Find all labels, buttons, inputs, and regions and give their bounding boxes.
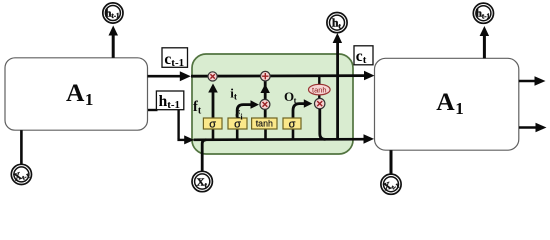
svg-text:tanh: tanh <box>312 85 327 94</box>
wire h(t-1) output arrow up from left block <box>112 30 115 58</box>
block A1 left (rounded rect) <box>5 58 148 130</box>
wire O(t) curve from sigma3 into right multiply <box>293 104 305 119</box>
gate box tanh <box>252 118 277 129</box>
wire x(t+1) riser into right block <box>390 150 393 174</box>
op multiply (output gate) <box>315 98 325 108</box>
node x(t) circle <box>192 171 212 191</box>
label box c(t) <box>354 46 373 66</box>
svg-text:σ: σ <box>289 118 296 130</box>
gate stub tanh <box>264 129 267 140</box>
tanh oval <box>309 84 331 95</box>
svg-text:tanh: tanh <box>256 119 273 129</box>
wire right block output arrow upper <box>519 80 537 83</box>
op multiply on cell line (forget) <box>208 72 217 81</box>
wire f(t): sigma1 up to multiply on cell line <box>212 86 215 119</box>
tanh oval tap from cell line <box>318 77 320 84</box>
op add on cell line <box>261 71 271 81</box>
cell state line (top horizontal inside cell) <box>191 74 366 77</box>
gate stub sigma2 <box>236 129 239 140</box>
wire h(t+1) arrow up from right block <box>483 30 486 58</box>
wire candidate: tanh gate up through multiply to add <box>264 81 267 119</box>
node h(t) circle <box>327 13 347 33</box>
label box h(t-1) <box>156 91 183 111</box>
op multiply (input gate x candidate) <box>260 99 270 109</box>
gate box sigma1 <box>203 118 222 130</box>
svg-text:σ: σ <box>209 118 216 130</box>
node x(t-1) circle <box>11 164 31 184</box>
node x(t+1) circle bottom-right <box>381 174 401 194</box>
gate stub sigma3 <box>292 129 295 140</box>
gate box sigma2 <box>228 118 247 130</box>
bottom h line inside cell <box>194 138 366 141</box>
label box c(t-1) <box>162 48 188 69</box>
gate box sigma3 <box>283 118 301 130</box>
wire x(t-1) riser into left block <box>20 130 23 164</box>
LSTM cell body (green rounded box) <box>192 54 353 154</box>
block A1 right (rounded rect) <box>375 58 519 150</box>
wire from output multiply down to bottom line <box>320 109 326 140</box>
node h(t+1) circle top-right <box>473 3 493 23</box>
wire h(t-1) lower: block to label box, down, then into cell <box>148 109 158 111</box>
wire c(t-1) into cell <box>148 75 183 78</box>
node h(t-1) circle top-left <box>103 3 123 23</box>
wire x(t) riser to bottom line <box>202 140 206 171</box>
wire h(t) branch up and out of cell <box>336 36 339 139</box>
wire right block output arrow lower <box>519 126 538 129</box>
wire i(t) curve from sigma2 into mid multiply <box>237 105 251 119</box>
gate stub sigma1 <box>212 129 215 140</box>
